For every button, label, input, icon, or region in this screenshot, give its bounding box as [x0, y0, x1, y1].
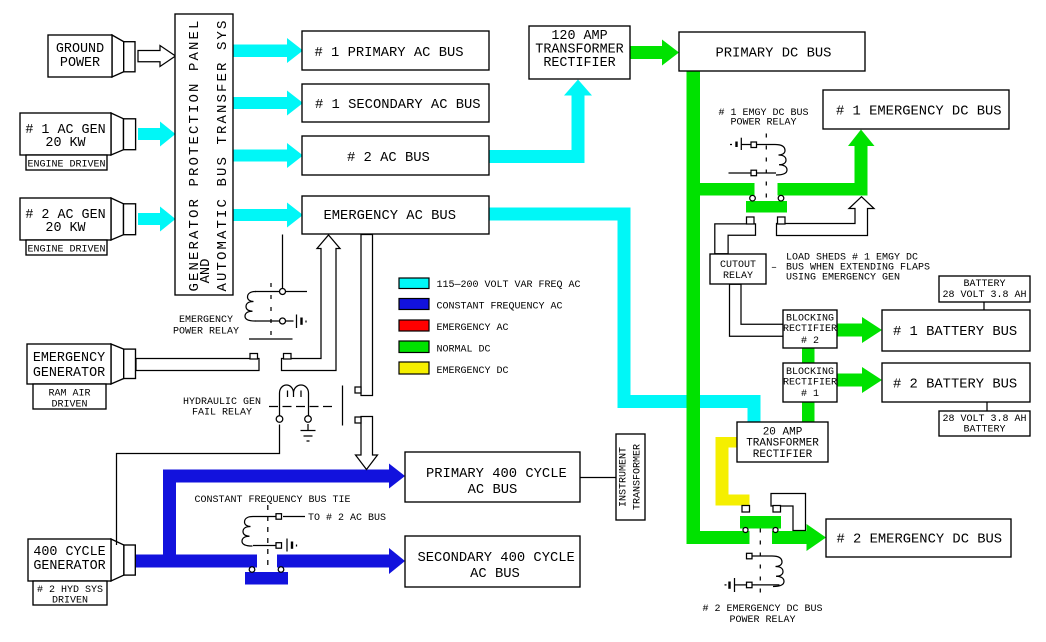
svg-text:28 VOLT 3.8 AH: 28 VOLT 3.8 AH: [942, 414, 1026, 425]
svg-text:DRIVEN: DRIVEN: [52, 596, 88, 607]
svg-text:EMERGENCY AC: EMERGENCY AC: [437, 323, 509, 334]
svg-text:INSTRUMENT: INSTRUMENT: [619, 447, 630, 507]
svg-text:# 1 EMERGENCY DC BUS: # 1 EMERGENCY DC BUS: [836, 105, 1002, 120]
svg-text:BATTERY: BATTERY: [963, 279, 1005, 290]
svg-text:# 2 EMERGENCY DC BUS: # 2 EMERGENCY DC BUS: [702, 604, 822, 615]
svg-text:DRIVEN: DRIVEN: [51, 400, 87, 411]
svg-text:NORMAL DC: NORMAL DC: [437, 345, 491, 356]
svg-text:PRIMARY DC BUS: PRIMARY DC BUS: [716, 47, 832, 62]
svg-text:RELAY: RELAY: [723, 271, 753, 282]
svg-text:USING EMERGENCY GEN: USING EMERGENCY GEN: [786, 273, 900, 284]
svg-text:CONSTANT FREQUENCY BUS TIE: CONSTANT FREQUENCY BUS TIE: [194, 495, 350, 506]
svg-text:BLOCKING: BLOCKING: [786, 367, 834, 378]
svg-text:RECTIFIER: RECTIFIER: [783, 378, 837, 389]
svg-text:BLOCKING: BLOCKING: [786, 314, 834, 325]
svg-text:20 KW: 20 KW: [45, 136, 86, 151]
svg-text:# 2 BATTERY BUS: # 2 BATTERY BUS: [893, 378, 1017, 393]
svg-text:GENERATOR: GENERATOR: [33, 559, 105, 574]
svg-text:AC BUS: AC BUS: [470, 567, 520, 582]
svg-text:AND: AND: [199, 259, 214, 284]
svg-text:400 CYCLE: 400 CYCLE: [33, 545, 105, 560]
svg-text:BATTERY: BATTERY: [963, 425, 1005, 436]
svg-text:POWER: POWER: [60, 56, 100, 71]
svg-text:CONSTANT FREQUENCY AC: CONSTANT FREQUENCY AC: [437, 302, 563, 313]
svg-text:115—200 VOLT VAR FREQ AC: 115—200 VOLT VAR FREQ AC: [437, 280, 581, 291]
svg-text:TRANSFORMER: TRANSFORMER: [633, 444, 644, 510]
svg-text:20 KW: 20 KW: [45, 221, 86, 236]
svg-text:AUTOMATIC BUS TRANSFER SYS: AUTOMATIC BUS TRANSFER SYS: [215, 18, 231, 291]
svg-text:GENERATOR: GENERATOR: [33, 366, 105, 381]
svg-text:AC BUS: AC BUS: [468, 483, 518, 498]
svg-text:EMERGENCY: EMERGENCY: [179, 315, 233, 326]
svg-text:RECTIFIER: RECTIFIER: [753, 449, 813, 461]
svg-text:# 2 AC BUS: # 2 AC BUS: [347, 151, 430, 166]
svg-text:POWER RELAY: POWER RELAY: [173, 327, 239, 338]
svg-text:# 1 SECONDARY AC BUS: # 1 SECONDARY AC BUS: [315, 98, 481, 113]
svg-text:EMERGENCY: EMERGENCY: [33, 351, 105, 366]
svg-text:POWER RELAY: POWER RELAY: [730, 118, 796, 129]
svg-text:GROUND: GROUND: [56, 42, 104, 57]
svg-text:ENGINE DRIVEN: ENGINE DRIVEN: [27, 245, 105, 256]
svg-text:GENERATOR PROTECTION PANEL: GENERATOR PROTECTION PANEL: [187, 18, 203, 291]
svg-text:RAM AIR: RAM AIR: [48, 389, 90, 400]
svg-text:TRANSFORMER: TRANSFORMER: [746, 438, 819, 450]
svg-text:TO # 2 AC BUS: TO # 2 AC BUS: [308, 513, 386, 524]
svg-text:# 2 EMERGENCY DC BUS: # 2 EMERGENCY DC BUS: [837, 533, 1003, 548]
svg-text:28 VOLT 3.8 AH: 28 VOLT 3.8 AH: [942, 290, 1026, 301]
svg-text:CUTOUT: CUTOUT: [720, 260, 756, 271]
svg-text:ENGINE DRIVEN: ENGINE DRIVEN: [27, 160, 105, 171]
svg-text:# 2: # 2: [801, 336, 819, 347]
svg-text:POWER RELAY: POWER RELAY: [729, 615, 795, 626]
svg-text:RECTIFIER: RECTIFIER: [783, 324, 837, 335]
svg-text:EMERGENCY DC: EMERGENCY DC: [437, 366, 509, 377]
svg-text:RECTIFIER: RECTIFIER: [543, 56, 615, 71]
svg-text:# 2 HYD SYS: # 2 HYD SYS: [37, 585, 103, 596]
svg-text:FAIL RELAY: FAIL RELAY: [192, 408, 252, 419]
svg-text:SECONDARY 400 CYCLE: SECONDARY 400 CYCLE: [418, 551, 575, 566]
svg-text:PRIMARY 400 CYCLE: PRIMARY 400 CYCLE: [426, 467, 567, 482]
svg-text:# 1 PRIMARY AC BUS: # 1 PRIMARY AC BUS: [315, 46, 464, 61]
svg-text:# 1 BATTERY BUS: # 1 BATTERY BUS: [893, 325, 1017, 340]
svg-text:EMERGENCY AC BUS: EMERGENCY AC BUS: [324, 209, 456, 224]
svg-text:# 1: # 1: [801, 389, 819, 400]
svg-text:HYDRAULIC GEN: HYDRAULIC GEN: [183, 397, 261, 408]
svg-text:–: –: [771, 263, 777, 274]
